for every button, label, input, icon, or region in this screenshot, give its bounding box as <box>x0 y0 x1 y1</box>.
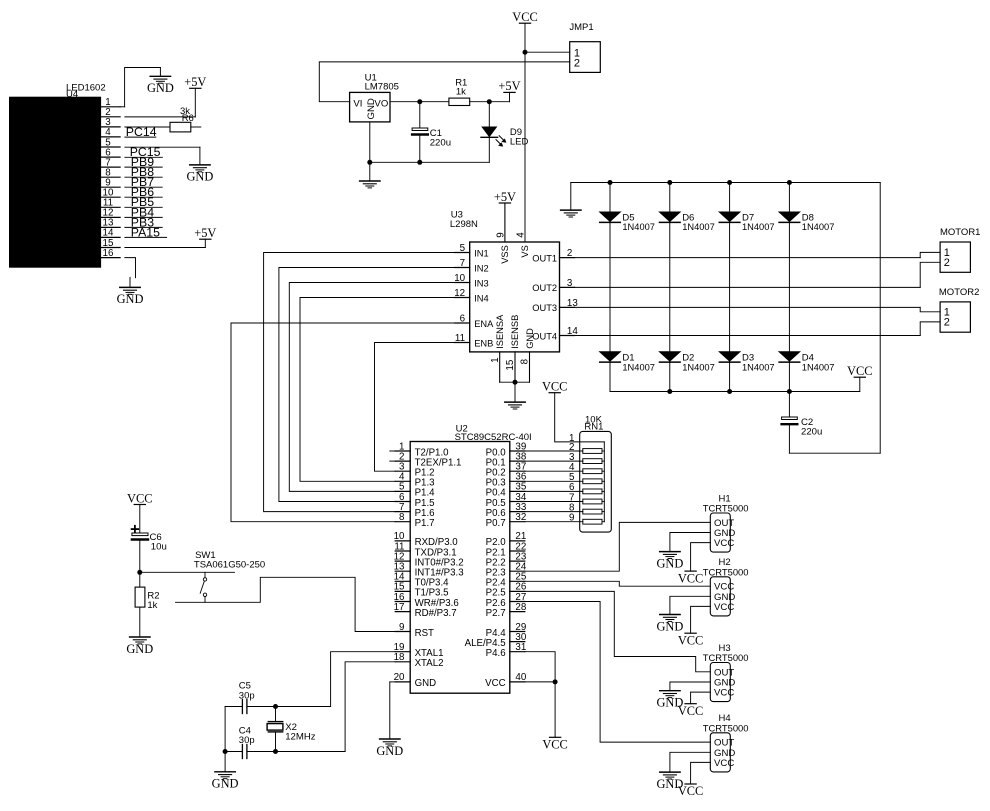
svg-text:2: 2 <box>567 248 572 259</box>
U4 pin 5 <box>101 137 121 148</box>
U2 pin 5 P1.4 <box>395 482 435 499</box>
motor driver U3 L298N <box>450 210 560 352</box>
svg-text:6: 6 <box>460 313 466 324</box>
svg-text:GND: GND <box>126 642 153 656</box>
svg-text:IN2: IN2 <box>474 263 488 273</box>
U2 pin 36 P0.3 <box>486 472 527 489</box>
svg-text:1N4007: 1N4007 <box>682 222 715 232</box>
RN1 resistor element pin 9 <box>569 513 604 525</box>
svg-text:1N4007: 1N4007 <box>742 222 775 232</box>
RN1 resistor element pin 2 <box>569 442 604 454</box>
svg-text:17: 17 <box>394 602 405 613</box>
U3 pin 6 ENA <box>455 313 494 328</box>
wire OUT2 to MOTOR1 pin2 <box>575 286 921 288</box>
U2 pin 18 XTAL2 <box>394 652 444 669</box>
svg-text:IN4: IN4 <box>474 293 488 303</box>
svg-text:VS: VS <box>520 245 530 257</box>
RN1 resistor element pin 5 <box>569 472 604 484</box>
power VCC (H4) <box>678 784 703 798</box>
diode D4 1N4007 <box>779 352 834 373</box>
U2 pin 9 RST <box>395 622 434 639</box>
power +5V (after R1) <box>498 79 520 102</box>
svg-text:11: 11 <box>455 333 465 344</box>
U3 pin 4 VS <box>515 232 530 258</box>
U2 pin 11 TXD/P3.1 <box>394 541 456 558</box>
U4 pin 14 <box>101 228 121 239</box>
svg-text:TCRT5000: TCRT5000 <box>703 503 749 514</box>
U2 pin 20 GND <box>394 672 437 689</box>
wire VCC vertical to U3 VS pin 4 <box>524 23 526 242</box>
RN1 resistor element pin 6 <box>569 482 604 494</box>
wire U4 pin2 to +5V <box>125 88 195 117</box>
U4 pin 11 <box>101 198 121 209</box>
wire diode column 2 <box>669 183 671 392</box>
ground GND (crystal) <box>212 752 239 791</box>
capacitor C5 30p <box>225 681 331 714</box>
wire U2 GND pin to ground <box>390 681 395 683</box>
svg-text:30p: 30p <box>239 735 255 746</box>
wire OUT3 to MOTOR2 pin1 <box>575 306 921 308</box>
U2 pin 21 P2.0 <box>486 531 527 548</box>
svg-text:OUT4: OUT4 <box>532 331 557 341</box>
U2 pin 24 P2.3 <box>486 562 527 579</box>
svg-text:3: 3 <box>567 278 573 289</box>
wire IN4 to P1.3 <box>300 298 455 482</box>
svg-text:GND: GND <box>656 556 683 570</box>
power VCC (H1) <box>678 571 703 585</box>
svg-text:10: 10 <box>454 273 465 284</box>
svg-text:GND: GND <box>186 170 213 184</box>
LED D9 <box>481 102 529 163</box>
U2 pin 1 T2/P1.0 <box>395 441 449 458</box>
switch SW1 TSA061G50-250 <box>140 550 265 602</box>
svg-text:GND: GND <box>415 678 437 689</box>
U3 pin 12 IN4 <box>454 288 488 303</box>
svg-text:+5V: +5V <box>494 190 516 204</box>
junction pin40/pin31 <box>553 679 558 684</box>
ground GND (H4) <box>656 772 683 791</box>
svg-text:GND: GND <box>212 777 239 791</box>
U2 pin 30 ALE/P4.5 <box>465 632 527 649</box>
svg-text:OUT3: OUT3 <box>532 303 557 313</box>
wire U4 pin15 to +5V <box>125 239 205 247</box>
U4 pin 10 <box>101 188 121 199</box>
diode D6 1N4007 <box>660 212 715 232</box>
svg-text:VCC: VCC <box>714 602 734 613</box>
wire R1 to +5V <box>470 101 510 103</box>
U4 pin 2 <box>101 107 121 118</box>
wire diode column 3 <box>729 183 731 392</box>
capacitor C1 220u <box>412 102 451 163</box>
svg-text:220u: 220u <box>801 426 822 437</box>
svg-text:GND: GND <box>117 292 144 306</box>
svg-text:1k: 1k <box>456 86 466 97</box>
power VCC (U2 pin40) <box>542 737 567 751</box>
svg-text:ENB: ENB <box>474 338 493 348</box>
node PC14 (U4 pin4) <box>125 125 157 139</box>
resistor R6 3k <box>170 106 201 132</box>
svg-text:ISENSB: ISENSB <box>510 315 520 349</box>
U4 pin 1 <box>101 97 121 108</box>
power VCC (H2) <box>678 633 703 647</box>
ground GND (U4 pin1) <box>147 68 174 96</box>
svg-text:VCC: VCC <box>512 10 537 24</box>
svg-text:220u: 220u <box>430 137 451 148</box>
svg-text:JMP1: JMP1 <box>569 22 593 33</box>
svg-text:1N4007: 1N4007 <box>682 362 715 372</box>
svg-text:8: 8 <box>399 512 405 523</box>
svg-text:MOTOR2: MOTOR2 <box>939 287 979 298</box>
wire C2 bottom to right vertical <box>789 452 880 454</box>
power VCC (diode rail) <box>847 364 872 392</box>
junction rail/C1 <box>417 160 422 165</box>
U2 pin 31 P4.6 <box>486 642 527 659</box>
wire U1 ground rail <box>370 122 490 162</box>
wire P2.5 to H3 OUT <box>525 591 711 671</box>
svg-text:1N4007: 1N4007 <box>742 362 775 372</box>
wire H3 GND pin <box>670 682 710 691</box>
svg-text:L298N: L298N <box>450 219 478 230</box>
wire P2.6 to H4 OUT <box>525 602 711 743</box>
svg-text:LED: LED <box>510 137 529 148</box>
U4 pin 13 <box>101 218 121 229</box>
svg-text:GND: GND <box>147 81 174 95</box>
U3 pin 1 ISENSA <box>490 314 505 382</box>
wire P4.6 to VCC <box>525 652 555 682</box>
U3 pin 3 OUT2 <box>532 278 574 293</box>
junction bottom rail / D4 <box>787 389 792 394</box>
wire ENB to P1.2 <box>375 343 455 472</box>
wire U4 pin16 to GND <box>125 258 136 278</box>
RN1 common bus <box>603 442 605 522</box>
sensor H2 TCRT5000 <box>703 557 749 616</box>
wire pin40 VCC <box>525 682 555 737</box>
svg-text:+5V: +5V <box>184 75 206 89</box>
wire crystal left leg <box>224 707 226 752</box>
svg-text:P1.7: P1.7 <box>415 518 435 529</box>
connector MOTOR2 <box>939 287 979 332</box>
connector MOTOR1 <box>940 227 980 272</box>
junction C1 top <box>417 99 422 104</box>
svg-text:9: 9 <box>495 232 506 237</box>
svg-text:LM7805: LM7805 <box>365 82 399 93</box>
svg-text:VCC: VCC <box>714 538 734 549</box>
svg-text:4: 4 <box>515 232 526 238</box>
svg-text:U4: U4 <box>66 89 78 100</box>
svg-text:GND: GND <box>525 328 535 349</box>
svg-text:VCC: VCC <box>485 678 505 689</box>
power VCC (top) <box>512 10 537 24</box>
svg-text:1N4007: 1N4007 <box>802 222 835 232</box>
svg-text:TCRT5000: TCRT5000 <box>703 566 749 577</box>
svg-text:GND: GND <box>366 98 377 119</box>
svg-text:IN1: IN1 <box>474 248 488 258</box>
U4 pin 9 <box>101 178 121 189</box>
ground (U3) <box>505 382 525 409</box>
U4 pin 3 <box>101 117 121 128</box>
wire U2 pin2 stub <box>390 460 395 462</box>
wire right vertical (top rail to C2) <box>879 183 881 454</box>
ground GND (U4 pin5) <box>186 165 213 184</box>
svg-text:PC14: PC14 <box>126 125 157 139</box>
wire OUT1 to MOTOR1 pin1 <box>575 257 921 259</box>
resistor R2 1k <box>135 572 159 637</box>
capacitor C6 10u <box>132 505 167 573</box>
diode D3 1N4007 <box>719 352 774 373</box>
U2 pin 4 P1.3 <box>395 472 434 489</box>
junction rail/U1 GND <box>367 160 372 165</box>
svg-text:9: 9 <box>399 622 404 633</box>
wire P0.5 to RN1 <box>525 501 583 503</box>
U3 pin 9 VSS <box>495 203 510 264</box>
microcontroller U2 STC89C52RC-40I <box>410 424 531 694</box>
U4 pin 4 <box>101 127 121 138</box>
U2 pin 25 P2.4 <box>486 572 527 589</box>
RN1 resistor element pin 3 <box>569 452 604 464</box>
svg-text:16: 16 <box>103 248 114 259</box>
power +5V (U4 pin2) <box>184 75 206 89</box>
svg-text:2: 2 <box>574 57 580 69</box>
wire P0.3 to RN1 <box>525 480 583 482</box>
svg-text:1: 1 <box>490 357 501 362</box>
svg-text:8: 8 <box>520 358 531 364</box>
voltage regulator U1 LM7805 <box>350 72 399 122</box>
junction crystal gnd <box>223 749 228 754</box>
U2 pin 16 WR#/P3.6 <box>394 592 459 609</box>
svg-text:PA15: PA15 <box>131 225 160 239</box>
wire U4 pin5 to GND <box>125 147 200 165</box>
wire U4 pin3 to R6 <box>125 126 170 128</box>
U2 pin 7 P1.6 <box>395 502 434 519</box>
U2 pin 2 T2EX/P1.1 <box>395 451 461 468</box>
svg-text:OUT1: OUT1 <box>532 253 557 263</box>
U2 pin 34 P0.5 <box>486 492 527 509</box>
U4 pin 12 <box>101 208 121 219</box>
U2 pin 15 T1/P3.5 <box>394 582 449 599</box>
svg-text:VCC: VCC <box>714 688 734 699</box>
U2 pin 3 P1.2 <box>395 462 434 479</box>
node PB5 (U4 pin11) <box>125 195 162 209</box>
wire JMP1 pin1 <box>525 51 570 53</box>
svg-text:ISENSA: ISENSA <box>495 314 505 349</box>
svg-text:VI: VI <box>353 98 362 109</box>
wire JMP1 pin2 to U1 VI <box>319 62 569 102</box>
junction top rail / D6 <box>667 180 672 185</box>
sensor H4 TCRT5000 <box>703 713 749 772</box>
wire IN1 to P1.6 <box>264 253 455 512</box>
ground GND (U4 pin16) <box>117 277 144 306</box>
junction reset node <box>137 570 142 575</box>
svg-text:TCRT5000: TCRT5000 <box>703 722 749 733</box>
resistor network RN1 10K <box>580 414 612 532</box>
svg-text:TCRT5000: TCRT5000 <box>703 652 749 663</box>
wire H4 GND pin <box>670 752 710 772</box>
junction VCC / JMP1 pin1 <box>523 50 528 55</box>
wire U4 pin1 to GND <box>120 68 160 107</box>
svg-text:XTAL2: XTAL2 <box>415 658 444 669</box>
U2 pin 19 XTAL1 <box>394 642 444 659</box>
svg-text:GND: GND <box>656 619 683 633</box>
svg-text:+5V: +5V <box>194 226 216 240</box>
crystal X2 12MHz <box>267 707 316 752</box>
wire H1 VCC pin <box>691 543 711 572</box>
U2 pin 22 P2.1 <box>486 541 527 558</box>
svg-text:10u: 10u <box>151 542 167 553</box>
svg-text:1N4007: 1N4007 <box>622 362 655 372</box>
wire P2.4 to H2 pin1 <box>525 581 711 586</box>
U2 pin 12 INT0#/P3.2 <box>394 551 464 568</box>
RN1 resistor element pin 7 <box>569 492 604 504</box>
diode D5 1N4007 <box>600 212 655 232</box>
wire VCC to RN1 pin1 <box>555 393 605 442</box>
svg-text:VSS: VSS <box>500 245 510 264</box>
node PB4 (U4 pin12) <box>125 205 162 219</box>
wire IN3 to P1.4 <box>289 283 454 492</box>
U3 pin 10 IN3 <box>454 273 488 288</box>
svg-text:P0.7: P0.7 <box>486 518 506 529</box>
diode D2 1N4007 <box>660 352 715 373</box>
diode D7 1N4007 <box>719 212 774 232</box>
power VCC (reset) <box>127 491 152 505</box>
wire diode column 1 <box>609 183 611 392</box>
U2 pin 8 P1.7 <box>395 512 434 529</box>
svg-text:12MHz: 12MHz <box>285 732 316 743</box>
U2 pin 17 RD#/P3.7 <box>394 602 457 619</box>
svg-text:P2.7: P2.7 <box>486 608 506 619</box>
svg-text:OUT2: OUT2 <box>532 283 557 293</box>
U3 pin 14 OUT4 <box>532 326 578 341</box>
svg-text:2: 2 <box>944 316 950 328</box>
wire H3 VCC pin <box>691 692 711 704</box>
U3 pin 13 OUT3 <box>532 298 578 313</box>
U2 pin 35 P0.4 <box>486 482 527 499</box>
wire U1 VO to R1 <box>390 101 449 103</box>
power VCC (RN1) <box>542 380 567 394</box>
svg-text:VCC: VCC <box>678 704 703 718</box>
junction top rail / D7 <box>727 180 732 185</box>
svg-text:RD#/P3.7: RD#/P3.7 <box>415 608 457 619</box>
node PB8 (U4 pin8) <box>125 165 162 179</box>
junction sense rail <box>513 380 518 385</box>
RN1 resistor element pin 4 <box>569 462 604 474</box>
svg-text:TSA061G50-250: TSA061G50-250 <box>194 560 265 571</box>
svg-text:7: 7 <box>460 258 465 269</box>
wire P0.7 to RN1 <box>525 521 583 523</box>
U2 pin 32 P0.7 <box>486 512 527 529</box>
U2 pin 38 P0.1 <box>486 451 527 468</box>
svg-text:MOTOR1: MOTOR1 <box>940 227 980 238</box>
svg-text:VCC: VCC <box>714 758 734 769</box>
node PB9 (U4 pin7) <box>125 155 162 169</box>
U4 pin 8 <box>101 168 121 179</box>
svg-text:RST: RST <box>415 628 434 639</box>
wire P0.0 to RN1 <box>525 450 583 452</box>
wire U3 sense/gnd rail <box>500 381 530 383</box>
U4 pin 15 <box>101 238 121 249</box>
U2 pin 23 P2.2 <box>486 551 527 568</box>
svg-text:VCC: VCC <box>678 571 703 585</box>
svg-text:12: 12 <box>454 288 465 299</box>
U2 pin 37 P0.2 <box>486 462 527 479</box>
wire diode bottom rail (VCC) <box>610 391 860 393</box>
wire P2.3 to H1 OUT <box>525 522 711 571</box>
capacitor C2 220u <box>782 392 823 454</box>
U4 pin 16 <box>101 248 121 259</box>
ground GND (U2 pin20) <box>376 739 403 758</box>
U2 pin 39 P0.0 <box>486 441 527 458</box>
connector JMP1 <box>569 22 600 73</box>
svg-text:2: 2 <box>944 257 950 269</box>
U2 pin 14 T0/P3.4 <box>394 572 450 589</box>
ground GND (H1) <box>656 552 683 571</box>
ground GND (R2) <box>126 637 153 656</box>
svg-text:15: 15 <box>505 359 516 370</box>
power VCC (H3) <box>678 704 703 718</box>
sensor H1 TCRT5000 <box>703 493 749 552</box>
junction X2 top <box>273 704 278 709</box>
wire P0.1 to RN1 <box>525 460 583 462</box>
junction bottom rail / D3 <box>727 389 732 394</box>
power +5V (U4 pin15) <box>194 226 216 240</box>
diode D8 1N4007 <box>779 212 834 232</box>
U2 pin 26 P2.5 <box>486 582 527 599</box>
svg-text:VCC: VCC <box>127 491 152 505</box>
resistor R1 1k <box>449 77 470 105</box>
wire XTAL2 <box>345 662 395 752</box>
junction top rail / D5 <box>608 180 613 185</box>
U3 pin 8 GND <box>520 328 535 382</box>
junction D9 top <box>487 99 492 104</box>
wire H4 VCC pin <box>691 762 711 784</box>
power +5V (U3 VSS) <box>494 190 516 204</box>
svg-text:5: 5 <box>460 243 466 254</box>
diode D1 1N4007 <box>600 352 655 373</box>
junction X2 bottom <box>273 749 278 754</box>
U2 pin 40 VCC <box>485 672 527 689</box>
sensor H3 TCRT5000 <box>703 643 749 702</box>
svg-text:1N4007: 1N4007 <box>622 222 655 232</box>
svg-text:IN3: IN3 <box>474 278 488 288</box>
U2 pin 13 INT1#/P3.3 <box>394 562 464 579</box>
svg-text:1N4007: 1N4007 <box>802 362 835 372</box>
ground GND (H2) <box>656 615 683 634</box>
wire XTAL1 <box>331 652 396 707</box>
U3 pin 7 IN2 <box>455 258 489 273</box>
svg-text:VCC: VCC <box>678 633 703 647</box>
ground (diode rail) <box>561 183 581 218</box>
wire P0.2 to RN1 <box>525 470 583 472</box>
svg-text:ENA: ENA <box>474 319 494 329</box>
wire diode column 4 <box>788 183 790 392</box>
wire IN2 to P1.5 <box>279 268 455 502</box>
svg-text:RN1: RN1 <box>584 422 603 433</box>
U3 pin 2 OUT1 <box>532 248 574 263</box>
wire P0.6 to RN1 <box>525 511 583 513</box>
wire H2 VCC pin <box>691 606 711 633</box>
wire OUT4 to MOTOR2 pin2 <box>575 335 921 337</box>
junction top rail / D8 <box>787 180 792 185</box>
IC U4 LED1602 display (black block) <box>10 83 106 268</box>
U2 pin 6 P1.5 <box>395 492 434 509</box>
svg-text:VCC: VCC <box>678 784 703 798</box>
svg-text:28: 28 <box>515 602 526 613</box>
U2 pin 28 P2.7 <box>486 602 527 619</box>
wire U2 pin1 stub <box>390 450 395 452</box>
wire diode top rail (GND) <box>571 182 880 184</box>
svg-text:R6: R6 <box>182 113 194 124</box>
node PB6 (U4 pin10) <box>125 185 162 199</box>
U4 pin 7 <box>101 157 121 168</box>
